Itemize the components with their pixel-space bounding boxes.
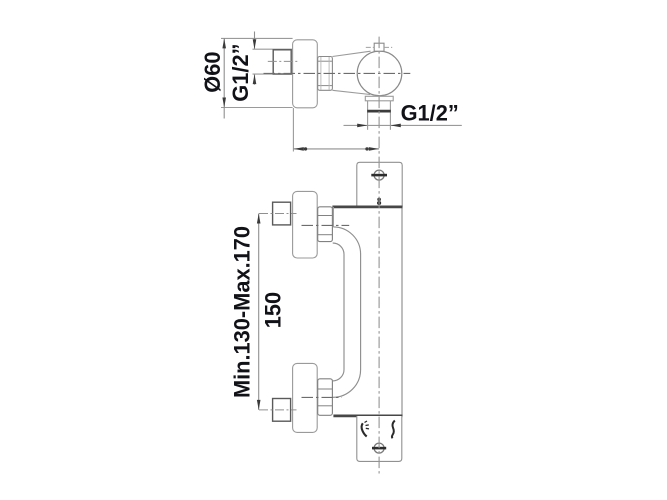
outlet dimension line G1/2	[344, 124, 462, 126]
top screw	[374, 170, 384, 180]
svg-text:Min.130-Max.170: Min.130-Max.170	[230, 226, 255, 398]
top inlet stub centerline	[259, 213, 297, 215]
hot icon (right, wavy)	[392, 421, 395, 439]
outlet pipe walls	[367, 101, 369, 130]
supply loop tube inner wall	[333, 243, 344, 381]
bottom inlet stub centerline	[259, 409, 297, 411]
bottom inlet nut centerline	[302, 396, 342, 398]
vertical dimension line 150 / Min-Max	[258, 214, 260, 410]
wall stub (top view)	[273, 50, 291, 74]
bottom inlet escutcheon (front view)	[293, 363, 318, 432]
valve body circle (top view)	[357, 51, 402, 96]
top inlet nut centerline	[302, 224, 350, 226]
dimension Ø60 witness line top	[221, 37, 293, 39]
bottom screw	[374, 443, 384, 453]
extension line from wall face	[292, 108, 294, 152]
body bottom edge (thick)	[333, 415, 402, 418]
bottom inlet hex nut	[318, 379, 333, 416]
svg-text:G1/2”: G1/2”	[228, 44, 253, 102]
bottom mounting tab	[357, 416, 402, 461]
escutcheon plate (top view)	[293, 40, 318, 108]
valve cone (top view)	[332, 51, 370, 56]
body left short edge below top	[332, 207, 334, 227]
body right edge	[401, 207, 403, 416]
dimension line G1/2 (stub)	[254, 32, 256, 50]
supply loop tube outer wall	[333, 227, 361, 397]
witness line stub bottom	[253, 73, 293, 75]
top inlet hex nut	[318, 207, 333, 242]
knob centerline ticks	[366, 46, 374, 48]
vertical centerline (whole drawing)	[378, 37, 380, 474]
weep holes (two dots)	[377, 198, 381, 202]
top inlet escutcheon (front view)	[293, 191, 318, 258]
svg-text:G1/2”: G1/2”	[401, 100, 459, 125]
body top edge (thick)	[332, 206, 402, 209]
outlet thread groove band	[367, 110, 391, 113]
top mounting tab	[357, 162, 402, 206]
stub centerline (top view)	[268, 60, 298, 62]
wall-to-axis dimension line	[293, 148, 379, 150]
svg-text:Ø60: Ø60	[200, 51, 225, 92]
witness line stub top	[253, 48, 293, 50]
cold icon (left, spray)	[362, 423, 367, 436]
knob square (top view)	[374, 43, 384, 51]
dimension Ø60 witness line bottom	[221, 107, 293, 109]
top inlet wall stub	[273, 202, 291, 225]
main horizontal centerline (top view)	[264, 72, 411, 74]
bottom inlet wall stub	[273, 399, 291, 422]
hex nut (top view)	[318, 57, 333, 91]
svg-text:150: 150	[260, 292, 285, 328]
outlet flange (top view)	[365, 96, 393, 101]
dimension line Ø60	[223, 38, 225, 118]
